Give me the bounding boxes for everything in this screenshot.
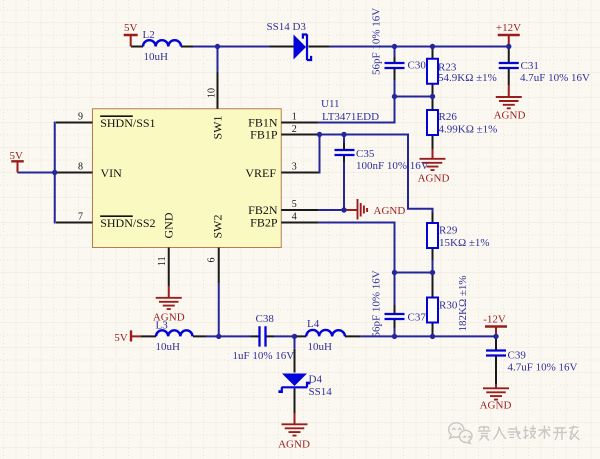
svg-text:15KΩ ±1%: 15KΩ ±1%: [439, 237, 490, 249]
svg-text:C35: C35: [356, 148, 375, 160]
svg-text:LT3471EDD: LT3471EDD: [322, 111, 379, 123]
svg-text:11: 11: [157, 256, 168, 266]
svg-text:VIN: VIN: [101, 166, 123, 180]
svg-text:10: 10: [207, 88, 218, 98]
svg-text:8: 8: [78, 161, 83, 172]
svg-text:SS14 D3: SS14 D3: [267, 21, 307, 33]
svg-text:D4: D4: [309, 374, 323, 386]
svg-text:SS14: SS14: [309, 386, 333, 398]
svg-text:6: 6: [207, 258, 218, 263]
svg-text:4: 4: [292, 212, 297, 223]
svg-text:SHDN/SS2: SHDN/SS2: [100, 216, 155, 230]
svg-text:AGND: AGND: [494, 110, 526, 122]
svg-text:R29: R29: [439, 225, 458, 237]
svg-text:10uH: 10uH: [144, 51, 169, 63]
svg-text:5V: 5V: [9, 150, 23, 162]
svg-text:7: 7: [78, 211, 83, 222]
svg-text:10uH: 10uH: [308, 341, 333, 353]
svg-text:5: 5: [292, 199, 297, 210]
svg-text:4.99KΩ ±1%: 4.99KΩ ±1%: [439, 124, 498, 136]
svg-text:C39: C39: [508, 350, 527, 362]
svg-text:1: 1: [292, 112, 297, 123]
svg-text:5V: 5V: [114, 332, 128, 344]
svg-text:R30: R30: [439, 300, 458, 312]
svg-text:C31: C31: [521, 60, 539, 72]
svg-text:AGND: AGND: [278, 439, 310, 451]
svg-text:C37: C37: [408, 312, 427, 324]
svg-text:9: 9: [78, 112, 83, 123]
svg-text:U11: U11: [321, 98, 340, 110]
svg-text:SW1: SW1: [211, 116, 225, 140]
svg-text:L2: L2: [143, 29, 155, 41]
svg-text:C30: C30: [408, 60, 427, 72]
svg-text:56pF 10% 16V: 56pF 10% 16V: [371, 8, 383, 75]
svg-text:10uH: 10uH: [156, 341, 181, 353]
svg-text:100nF 10% 16V: 100nF 10% 16V: [356, 160, 429, 172]
svg-text:1uF 10% 16V: 1uF 10% 16V: [233, 350, 295, 362]
svg-text:GND: GND: [162, 212, 176, 238]
svg-text:AGND: AGND: [374, 205, 406, 217]
svg-text:4.7uF 10% 16V: 4.7uF 10% 16V: [520, 72, 590, 84]
svg-text:-12V: -12V: [483, 314, 506, 326]
svg-text:AGND: AGND: [153, 312, 185, 324]
svg-text:4.7uF 10% 16V: 4.7uF 10% 16V: [508, 362, 578, 374]
svg-text:VREF: VREF: [245, 166, 276, 180]
svg-text:56pF 10% 16V: 56pF 10% 16V: [371, 270, 383, 337]
svg-text:182KΩ ±1%: 182KΩ ±1%: [457, 275, 469, 331]
svg-text:FB2P: FB2P: [250, 216, 278, 230]
svg-text:+12V: +12V: [496, 22, 521, 34]
svg-text:2: 2: [292, 124, 297, 135]
svg-text:FB1P: FB1P: [250, 128, 278, 142]
svg-text:AGND: AGND: [480, 400, 512, 412]
svg-text:SW2: SW2: [211, 215, 225, 239]
svg-text:SHDN/SS1: SHDN/SS1: [100, 116, 155, 130]
svg-text:L4: L4: [307, 318, 320, 330]
svg-text:R26: R26: [439, 111, 458, 123]
svg-text:3: 3: [292, 162, 297, 173]
svg-text:C38: C38: [256, 313, 275, 325]
svg-text:54.9KΩ ±1%: 54.9KΩ ±1%: [438, 72, 497, 84]
svg-text:5V: 5V: [124, 22, 138, 34]
svg-text:AGND: AGND: [418, 173, 450, 185]
